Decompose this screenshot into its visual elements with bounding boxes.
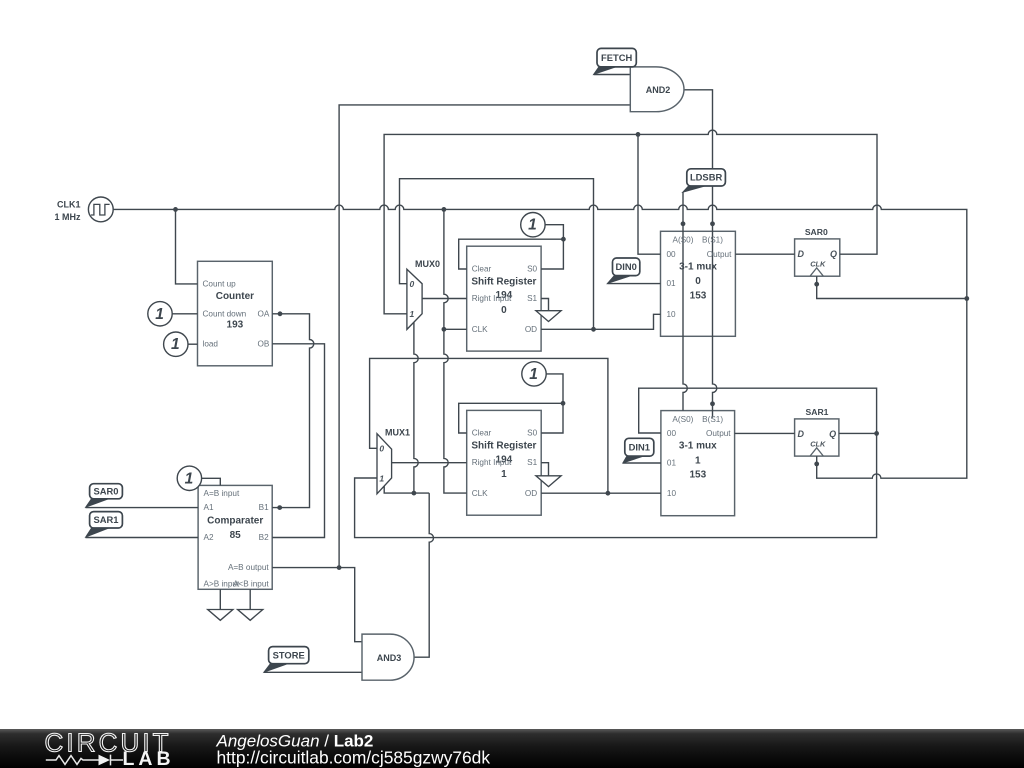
- svg-text:S0: S0: [527, 265, 537, 274]
- wire DIN1 to 3-1 mux 1 input 01: [623, 462, 661, 464]
- svg-text:SAR0: SAR0: [805, 227, 828, 237]
- svg-text:1: 1: [155, 306, 164, 323]
- flag SAR1: [86, 527, 112, 537]
- svg-text:DIN1: DIN1: [629, 441, 650, 452]
- wire SR0 Clear loop: [459, 239, 564, 269]
- svg-text:OD: OD: [525, 489, 537, 498]
- wire AND2 input b from long vertical: [339, 105, 630, 568]
- svg-text:OA: OA: [257, 309, 269, 318]
- svg-text:A=B output: A=B output: [228, 563, 269, 572]
- svg-text:http://circuitlab.com/cj585gzw: http://circuitlab.com/cj585gzwy76dk: [217, 748, 491, 768]
- wire AND2 output down to mux B(S1) pins: [684, 90, 717, 418]
- source 1 for comparator A=B input: [177, 466, 201, 490]
- wire loop SR1 OD to MUX1 input 0: [370, 358, 608, 493]
- wire 3-1 mux 1 Output to SAR1 D: [735, 432, 795, 434]
- counter U-counter box: [198, 261, 273, 366]
- svg-text:AND3: AND3: [377, 653, 402, 663]
- svg-text:FETCH: FETCH: [601, 52, 632, 63]
- svg-text:0: 0: [410, 279, 415, 289]
- wire DIN0 to 3-1 mux 0 input 01: [607, 283, 660, 285]
- wire MUX0 select down: [414, 322, 418, 493]
- svg-text:01: 01: [667, 279, 677, 288]
- svg-text:Clear: Clear: [472, 429, 492, 438]
- svg-text:AND2: AND2: [646, 85, 671, 95]
- svg-text:A(S0): A(S0): [673, 236, 694, 245]
- mux MUX0 trapezoid: [407, 269, 422, 329]
- wire MUX1 select stub: [384, 486, 429, 493]
- wire SAR0 CLK to right vertical: [817, 276, 967, 298]
- svg-text:1 MHz: 1 MHz: [54, 212, 81, 222]
- junction mux select join: [412, 491, 417, 496]
- wire SAR1 flag to comparator A2: [86, 537, 199, 539]
- svg-text:1: 1: [410, 309, 415, 319]
- svg-text:A=B input: A=B input: [204, 489, 240, 498]
- wire SR1 OD to 3-1 mux 1 input 10: [541, 492, 661, 494]
- wire MUX1 output to SR1 Right Input: [392, 462, 467, 464]
- wire comparator A=B output to AND3 input a: [272, 568, 362, 642]
- flag LDSBR: [683, 185, 709, 192]
- svg-text:00: 00: [667, 250, 677, 259]
- svg-text:153: 153: [689, 470, 706, 481]
- junction SAR1 Q: [874, 431, 879, 436]
- wire MUX0 output to SR0 Right Input: [422, 298, 467, 300]
- svg-text:B(S1): B(S1): [702, 236, 723, 245]
- wire source 1 to SR0 S0 and Clear: [541, 225, 563, 269]
- svg-text:S1: S1: [527, 294, 537, 303]
- svg-text:MUX1: MUX1: [385, 427, 410, 437]
- svg-text:CLK1: CLK1: [57, 200, 81, 210]
- svg-text:S1: S1: [527, 458, 537, 467]
- svg-text:SAR0: SAR0: [93, 485, 118, 496]
- wire counter OA to comparator B1: [272, 314, 314, 508]
- wire loop SR0 OD to MUX0 input 0: [400, 179, 594, 330]
- svg-text:SAR1: SAR1: [806, 407, 829, 417]
- wire counter OB to comparator B2: [272, 344, 324, 538]
- flag SAR0: [86, 498, 112, 508]
- svg-text:Clear: Clear: [472, 265, 492, 274]
- svg-text:load: load: [203, 339, 219, 348]
- wire source 1 to counter Count down: [172, 313, 197, 315]
- wire STORE to AND3 input b: [264, 671, 362, 673]
- svg-text:Counter: Counter: [216, 291, 254, 302]
- wire CLK vertical to shift register clocks: [444, 209, 467, 493]
- wire comparator A<B input to ground: [249, 589, 251, 609]
- svg-text:Count up: Count up: [203, 279, 237, 288]
- svg-text:Output: Output: [707, 250, 732, 259]
- svg-text:Shift Register: Shift Register: [471, 441, 536, 452]
- shift register SR0 box: [467, 246, 541, 351]
- junction SAR1 clk pin: [814, 462, 819, 467]
- svg-text:STORE: STORE: [273, 649, 305, 660]
- svg-text:3-1 mux: 3-1 mux: [679, 262, 717, 273]
- svg-text:1: 1: [171, 336, 180, 353]
- junction comparator B1 pin: [277, 505, 282, 510]
- flag DIN0: [607, 275, 634, 284]
- wire SAR1 Q feedback to mux 00 and MUX1 input 1: [355, 388, 877, 537]
- wire AND3 output up to mux select: [414, 493, 434, 657]
- flag STORE: [264, 663, 291, 673]
- wire SR1 S1 to ground: [541, 463, 548, 476]
- wire source 1 to SR1 S0 and Clear: [541, 374, 563, 433]
- wire SAR1 Q to junction: [839, 432, 877, 434]
- svg-text:OD: OD: [525, 325, 537, 334]
- svg-text:A1: A1: [204, 503, 214, 512]
- svg-text:S0: S0: [527, 429, 537, 438]
- svg-text:01: 01: [667, 458, 677, 467]
- junction mux0 B(S1) pin: [710, 221, 715, 226]
- junction SAR0 clk right vertical: [964, 296, 969, 301]
- CircuitLab logo: [45, 728, 175, 768]
- junction SR0 CLK branch: [442, 327, 447, 332]
- svg-text:Q: Q: [829, 429, 836, 439]
- wire SR1 Clear loop: [459, 403, 563, 433]
- svg-text:OB: OB: [257, 339, 269, 348]
- svg-text:LDSBR: LDSBR: [690, 172, 723, 183]
- svg-text:1: 1: [501, 469, 507, 480]
- svg-text:B2: B2: [259, 533, 269, 542]
- svg-text:00: 00: [667, 429, 677, 438]
- svg-text:Q: Q: [830, 249, 837, 259]
- junction SR1 OD loop: [606, 491, 611, 496]
- svg-text:0: 0: [695, 276, 701, 287]
- wire comparator A>B input to ground: [219, 589, 221, 609]
- ground for comparator A<B: [238, 610, 263, 621]
- svg-text:1: 1: [185, 470, 194, 487]
- source 1 for counter Count down: [148, 302, 172, 326]
- comparator box: [198, 485, 272, 589]
- flip-flop SAR1 clock triangle: [810, 448, 823, 456]
- and gate AND2: [630, 67, 684, 112]
- wire feedback branch to 3-1 mux 0 input 00: [638, 134, 661, 254]
- svg-text:0: 0: [501, 305, 507, 316]
- ground for SR1 S1: [536, 476, 561, 487]
- svg-text:Comparater: Comparater: [207, 516, 263, 527]
- mux MUX1 trapezoid: [377, 434, 392, 494]
- wire CLK main horizontal + right vertical + SAR1 clk return: [113, 205, 967, 478]
- wire source 1 to counter load: [188, 343, 198, 345]
- svg-text:193: 193: [227, 320, 244, 331]
- junction SAR0 clk pin: [814, 282, 819, 287]
- svg-text:3-1 mux: 3-1 mux: [679, 441, 717, 452]
- wire SR0 S1 to ground: [541, 299, 548, 311]
- junction CLK-counter: [173, 207, 178, 212]
- junction mux0 A(S0) pin: [681, 221, 686, 226]
- svg-text:1: 1: [695, 455, 701, 466]
- ground for SR0 S1: [536, 311, 561, 322]
- flag DIN1: [623, 455, 647, 463]
- junction CLK-SRclock: [442, 207, 447, 212]
- junction A=B output to AND2: [337, 565, 342, 570]
- svg-text:A(S0): A(S0): [672, 415, 693, 424]
- svg-text:CLK: CLK: [810, 440, 826, 449]
- junction SR1 one-source loop: [561, 401, 566, 406]
- wire source 1 to comparator A=B input: [202, 478, 221, 485]
- svg-text:Right Input: Right Input: [472, 294, 512, 303]
- and gate AND3: [362, 634, 414, 680]
- svg-text:10: 10: [667, 489, 677, 498]
- 3-1 mux 0 box: [661, 231, 736, 336]
- svg-text:CLK: CLK: [810, 260, 826, 269]
- svg-text:Shift Register: Shift Register: [471, 276, 536, 287]
- flag FETCH: [594, 66, 620, 75]
- svg-text:10: 10: [667, 310, 677, 319]
- svg-text:A<B input: A<B input: [233, 579, 269, 588]
- svg-text:1: 1: [528, 217, 537, 234]
- wire branch to SR0 CLK pin: [444, 328, 467, 330]
- svg-text:D: D: [798, 249, 805, 259]
- wire FETCH to AND2 input a: [594, 74, 631, 76]
- svg-text:1: 1: [529, 366, 538, 383]
- svg-text:1: 1: [379, 473, 384, 483]
- svg-text:DIN0: DIN0: [615, 261, 636, 272]
- junction SR0 one-source loop: [561, 237, 566, 242]
- flip-flop SAR1 box: [795, 419, 839, 456]
- ground for comparator A>B: [208, 610, 233, 621]
- svg-text:0: 0: [379, 443, 384, 453]
- 3-1 mux 1 box: [661, 411, 735, 516]
- svg-text:LAB: LAB: [123, 748, 175, 768]
- svg-text:Output: Output: [706, 429, 731, 438]
- svg-text:153: 153: [690, 290, 707, 301]
- shift register SR1 box: [467, 410, 542, 515]
- wire LDSBR down to mux A(S0) pins: [683, 192, 687, 410]
- svg-text:B1: B1: [259, 503, 269, 512]
- wire SAR0 Q feedback loop to MUX0 input 1: [384, 130, 877, 314]
- junction counter OA pin: [278, 311, 283, 316]
- source 1 for SR1: [522, 362, 546, 386]
- flip-flop SAR0 box: [795, 239, 840, 276]
- flip-flop SAR0 clock triangle: [810, 268, 823, 276]
- svg-text:CLK: CLK: [472, 325, 488, 334]
- svg-text:SAR1: SAR1: [93, 514, 118, 525]
- svg-text:A2: A2: [204, 533, 214, 542]
- source 1 for SR0: [521, 213, 545, 237]
- clock source CLK1: [88, 197, 113, 222]
- junction feedback to mux00: [636, 132, 641, 137]
- svg-text:B(S1): B(S1): [702, 415, 723, 424]
- junction mux1 B(S1) pin: [710, 401, 715, 406]
- svg-text:CLK: CLK: [472, 489, 488, 498]
- wire SR0 OD to 3-1 mux 0 input 10: [541, 314, 660, 329]
- svg-text:Right Input: Right Input: [472, 458, 512, 467]
- wire CLK to counter Count up: [176, 209, 198, 284]
- svg-text:85: 85: [230, 530, 242, 541]
- svg-text:MUX0: MUX0: [415, 259, 440, 269]
- wire 3-1 mux 0 Output to SAR0 D: [735, 253, 794, 255]
- svg-text:Count down: Count down: [203, 309, 247, 318]
- svg-text:D: D: [798, 429, 805, 439]
- junction SR0 OD loop: [591, 327, 596, 332]
- wire SAR0 flag to comparator A1: [86, 507, 199, 509]
- source 1 for counter load: [164, 332, 188, 356]
